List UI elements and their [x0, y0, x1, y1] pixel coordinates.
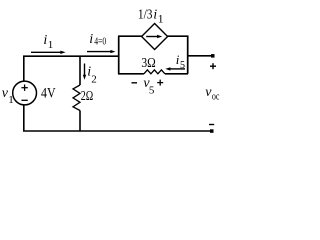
plus sign of v5 [157, 80, 163, 86]
plus sign inside source [21, 85, 27, 91]
svg-text:1/3: 1/3 [138, 8, 153, 23]
wire: output lead to plus terminal [187, 55, 213, 57]
dependent source U1 diamond [142, 24, 168, 50]
arrow inside dependent source [146, 35, 162, 38]
svg-text:oc: oc [212, 91, 220, 102]
svg-text:i: i [43, 33, 47, 48]
wire: top left segment with corner down to source [24, 56, 119, 81]
svg-text:i: i [89, 32, 93, 47]
minus sign inside source [21, 99, 27, 101]
wire: top branch right stub with corner down [167, 36, 187, 74]
resistor R 3ohm zigzag [144, 70, 165, 74]
svg-text:3Ω: 3Ω [141, 56, 155, 71]
wire: source bottom, bottom rail to right terminal [24, 105, 212, 131]
wire: bottom branch left stub [118, 73, 144, 75]
svg-text:5: 5 [149, 85, 155, 97]
wire: bottom branch right stub [165, 73, 188, 75]
svg-text:5: 5 [180, 60, 185, 71]
svg-text:1: 1 [158, 14, 164, 26]
resistor R 2ohm zigzag [73, 85, 80, 111]
plus sign at output [210, 63, 216, 69]
current arrow i5 [165, 67, 185, 70]
svg-text:1: 1 [48, 39, 54, 51]
node: plus terminal dot [211, 54, 215, 58]
voltage source V1 circle [13, 81, 37, 105]
wire: middle vertical lower [79, 111, 81, 132]
svg-text:4=0: 4=0 [94, 36, 106, 48]
svg-text:2Ω: 2Ω [81, 89, 94, 104]
svg-text:1: 1 [8, 94, 14, 106]
current arrow i1 [31, 51, 66, 54]
minus sign at output [209, 124, 214, 126]
current arrow i4 [87, 50, 116, 53]
current arrow i2 [83, 64, 86, 80]
wire: middle vertical upper [79, 56, 81, 85]
svg-text:i: i [153, 7, 157, 22]
wire: top branch left stub [118, 35, 142, 37]
wire: left edge of parallel loop [118, 36, 120, 74]
svg-text:4V: 4V [41, 86, 56, 102]
node: minus terminal dot [210, 129, 214, 133]
minus sign of v5 [132, 82, 138, 84]
svg-text:2: 2 [91, 73, 97, 85]
